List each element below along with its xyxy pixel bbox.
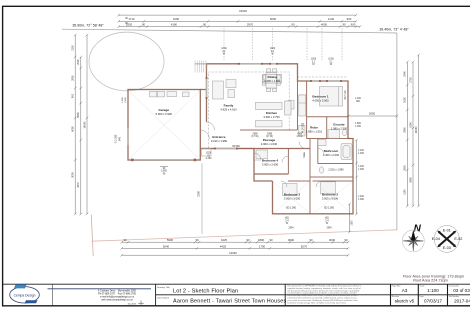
svg-text:2040: 2040	[77, 59, 80, 65]
svg-text:90: 90	[195, 238, 199, 242]
svg-text:90: 90	[309, 238, 313, 242]
svg-text:Kitchen: Kitchen	[266, 111, 277, 115]
svg-text:Aaron Bennett - Tawari Street: Aaron Bennett - Tawari Street Town House…	[173, 299, 286, 305]
svg-text:1.800: 1.800	[122, 96, 124, 102]
svg-text:Bedroom 4: Bedroom 4	[262, 159, 278, 163]
svg-text:3.000 x 3.000: 3.000 x 3.000	[284, 197, 301, 201]
svg-text:E-01: E-01	[443, 229, 451, 233]
svg-text:E-04: E-04	[432, 237, 440, 241]
svg-text:(17 W): (17 W)	[252, 136, 259, 138]
svg-text:2398: 2398	[198, 191, 201, 197]
svg-text:Bedroom 1: Bedroom 1	[312, 95, 328, 99]
svg-text:2994: 2994	[288, 228, 294, 230]
svg-text:4050: 4050	[321, 23, 328, 27]
svg-text:900: 900	[351, 23, 356, 27]
svg-text:90: 90	[269, 238, 273, 242]
svg-text:(61): (61)	[325, 218, 329, 220]
svg-text:Scale: Scale	[420, 286, 425, 288]
svg-text:W 14 305: W 14 305	[302, 122, 305, 133]
svg-text:G 2.030: G 2.030	[115, 134, 118, 143]
svg-text:1190: 1190	[404, 189, 407, 195]
svg-text:Family: Family	[224, 103, 234, 107]
svg-text:(61): (61)	[285, 218, 289, 220]
svg-text:90: 90	[291, 23, 295, 27]
svg-text:(219): (219)	[206, 153, 212, 155]
svg-text:1790: 1790	[259, 244, 266, 248]
svg-text:14060: 14060	[415, 126, 418, 134]
svg-text:90: 90	[344, 238, 348, 242]
svg-text:5.900: 5.900	[161, 171, 167, 173]
svg-text:Job Number: Job Number	[449, 295, 460, 298]
svg-text:1.800: 1.800	[355, 123, 361, 125]
svg-text:4470: 4470	[77, 182, 80, 188]
svg-text:4.925 x 4.910: 4.925 x 4.910	[220, 107, 237, 111]
svg-text:6090: 6090	[270, 17, 277, 21]
svg-text:3.300 x 1.800: 3.300 x 1.800	[264, 79, 281, 83]
svg-text:90: 90	[246, 238, 250, 242]
svg-text:3960: 3960	[409, 177, 412, 183]
svg-text:14060: 14060	[83, 121, 86, 129]
svg-text:mk 2017: mk 2017	[128, 304, 137, 306]
svg-text:1:100: 1:100	[427, 288, 439, 293]
svg-text:2080: 2080	[404, 97, 407, 103]
svg-text:4.000 x 3.000: 4.000 x 3.000	[312, 99, 329, 103]
svg-text:(219): (219)	[311, 59, 317, 61]
svg-text:Robe: Robe	[303, 151, 306, 157]
svg-text:2.400: 2.400	[206, 158, 212, 160]
svg-text:1.000: 1.000	[358, 199, 364, 201]
svg-text:35.90m, 72° 58' 48": 35.90m, 72° 58' 48"	[72, 23, 104, 27]
svg-text:947 140: 947 140	[344, 90, 347, 99]
svg-text:sketch v5: sketch v5	[395, 299, 415, 304]
svg-text:Cempa Design: Cempa Design	[14, 293, 36, 297]
svg-text:4.900 x 1.030: 4.900 x 1.030	[261, 142, 278, 146]
svg-text:5040: 5040	[163, 244, 170, 248]
svg-text:Revision: Revision	[392, 296, 399, 298]
svg-text:1.980 x 1.510: 1.980 x 1.510	[306, 130, 323, 134]
svg-text:3960: 3960	[404, 127, 407, 133]
svg-text:1.000: 1.000	[358, 169, 364, 171]
svg-text:5190: 5190	[409, 122, 412, 128]
svg-text:03 of 03: 03 of 03	[453, 288, 470, 293]
svg-text:6930: 6930	[77, 112, 80, 118]
svg-text:3000: 3000	[288, 238, 295, 242]
svg-text:4140: 4140	[328, 17, 335, 21]
svg-text:(219): (219)	[328, 59, 334, 61]
svg-text:2.510 x 1.990: 2.510 x 1.990	[328, 169, 344, 172]
svg-text:(219): (219)	[221, 48, 227, 50]
svg-text:4180: 4180	[171, 23, 178, 27]
svg-text:90: 90	[142, 23, 146, 27]
svg-text:39.40m, 73° 4' 48": 39.40m, 73° 4' 48"	[379, 28, 409, 32]
svg-text:2994: 2994	[326, 228, 332, 230]
svg-text:4.5 W: 4.5 W	[297, 136, 304, 138]
svg-text:2750: 2750	[409, 77, 412, 83]
svg-text:Entrance: Entrance	[212, 135, 226, 139]
svg-text:2970: 2970	[247, 23, 254, 27]
svg-text:8270: 8270	[301, 244, 308, 248]
svg-text:Ensuite: Ensuite	[333, 123, 344, 127]
svg-text:2017-04: 2017-04	[454, 299, 470, 304]
svg-text:Dining: Dining	[267, 75, 277, 79]
svg-text:Bedroom 2: Bedroom 2	[322, 193, 338, 197]
svg-text:1940: 1940	[404, 71, 407, 77]
svg-text:1.000: 1.000	[355, 126, 361, 128]
svg-text:3.300 x 3.750: 3.300 x 3.750	[263, 115, 280, 119]
svg-text:Drawing Title: Drawing Title	[157, 286, 170, 289]
svg-text:Drawing No: Drawing No	[449, 285, 459, 288]
svg-text:2650: 2650	[72, 75, 75, 81]
svg-text:5900: 5900	[167, 238, 174, 242]
svg-text:14930: 14930	[229, 251, 237, 255]
svg-text:1890: 1890	[258, 238, 265, 242]
svg-text:Garage: Garage	[158, 108, 169, 112]
svg-text:Robe: Robe	[310, 126, 318, 130]
svg-text:web www.cempadesign.co.nz: web www.cempadesign.co.nz	[101, 299, 133, 302]
svg-text:Date: Date	[420, 295, 424, 298]
svg-text:1.400: 1.400	[358, 166, 364, 168]
svg-text:1.000: 1.000	[358, 153, 364, 155]
svg-text:Roof Area 224.7sqm: Roof Area 224.7sqm	[413, 279, 448, 283]
svg-text:Page Size: Page Size	[392, 286, 401, 288]
svg-text:Bedroom 3: Bedroom 3	[284, 193, 300, 197]
svg-text:1710: 1710	[128, 17, 135, 21]
svg-text:1.200: 1.200	[355, 98, 361, 100]
svg-text:1.980 x 2.500: 1.980 x 2.500	[331, 127, 348, 131]
svg-text:2100: 2100	[72, 45, 75, 51]
svg-text:3000: 3000	[329, 238, 336, 242]
svg-text:4425: 4425	[220, 244, 227, 248]
svg-text:Passage: Passage	[263, 138, 276, 142]
svg-text:3.210 x 1.980: 3.210 x 1.980	[211, 139, 228, 143]
svg-text:SD 1.000: SD 1.000	[324, 207, 335, 210]
svg-text:4425: 4425	[221, 238, 228, 242]
svg-text:16000: 16000	[239, 9, 247, 13]
svg-text:3.400 x 2.000: 3.400 x 2.000	[323, 153, 340, 157]
svg-text:(17 W): (17 W)	[266, 136, 273, 138]
svg-text:2650: 2650	[404, 165, 407, 171]
svg-text:940: 940	[119, 136, 122, 141]
svg-text:3095: 3095	[72, 172, 75, 178]
svg-text:900: 900	[347, 17, 352, 21]
svg-text:90: 90	[342, 23, 346, 27]
svg-text:2.400: 2.400	[125, 96, 127, 102]
svg-text:1.400: 1.400	[358, 196, 364, 198]
svg-text:07/03/17: 07/03/17	[424, 299, 442, 304]
svg-text:SD 1.000: SD 1.000	[286, 207, 297, 210]
svg-text:2650: 2650	[369, 112, 376, 116]
svg-text:4290: 4290	[173, 17, 180, 21]
svg-text:90: 90	[203, 23, 207, 27]
svg-text:1890: 1890	[352, 220, 354, 226]
svg-text:90: 90	[123, 238, 127, 242]
svg-text:3.000 x 2.600: 3.000 x 2.600	[262, 163, 279, 167]
svg-text:5.900 x 5.900: 5.900 x 5.900	[156, 112, 173, 116]
svg-text:Lot 2 - Sketch Floor Plan: Lot 2 - Sketch Floor Plan	[173, 289, 238, 295]
svg-text:Bathroom: Bathroom	[324, 149, 339, 153]
svg-text:3.000 x 3.000: 3.000 x 3.000	[322, 197, 339, 201]
svg-text:Client Name: Client Name	[157, 297, 170, 300]
svg-text:E-03: E-03	[443, 246, 451, 250]
svg-text:94 560: 94 560	[232, 145, 240, 148]
svg-text:Denied to Cempa Design 2017, a: Denied to Cempa Design 2017, all rights …	[287, 302, 347, 305]
svg-text:6080: 6080	[72, 126, 75, 132]
svg-text:(219): (219)	[270, 48, 276, 50]
svg-text:1.400: 1.400	[358, 150, 364, 152]
svg-text:900: 900	[72, 93, 75, 98]
svg-text:A3: A3	[402, 288, 408, 293]
svg-text:E-02: E-02	[454, 237, 462, 241]
